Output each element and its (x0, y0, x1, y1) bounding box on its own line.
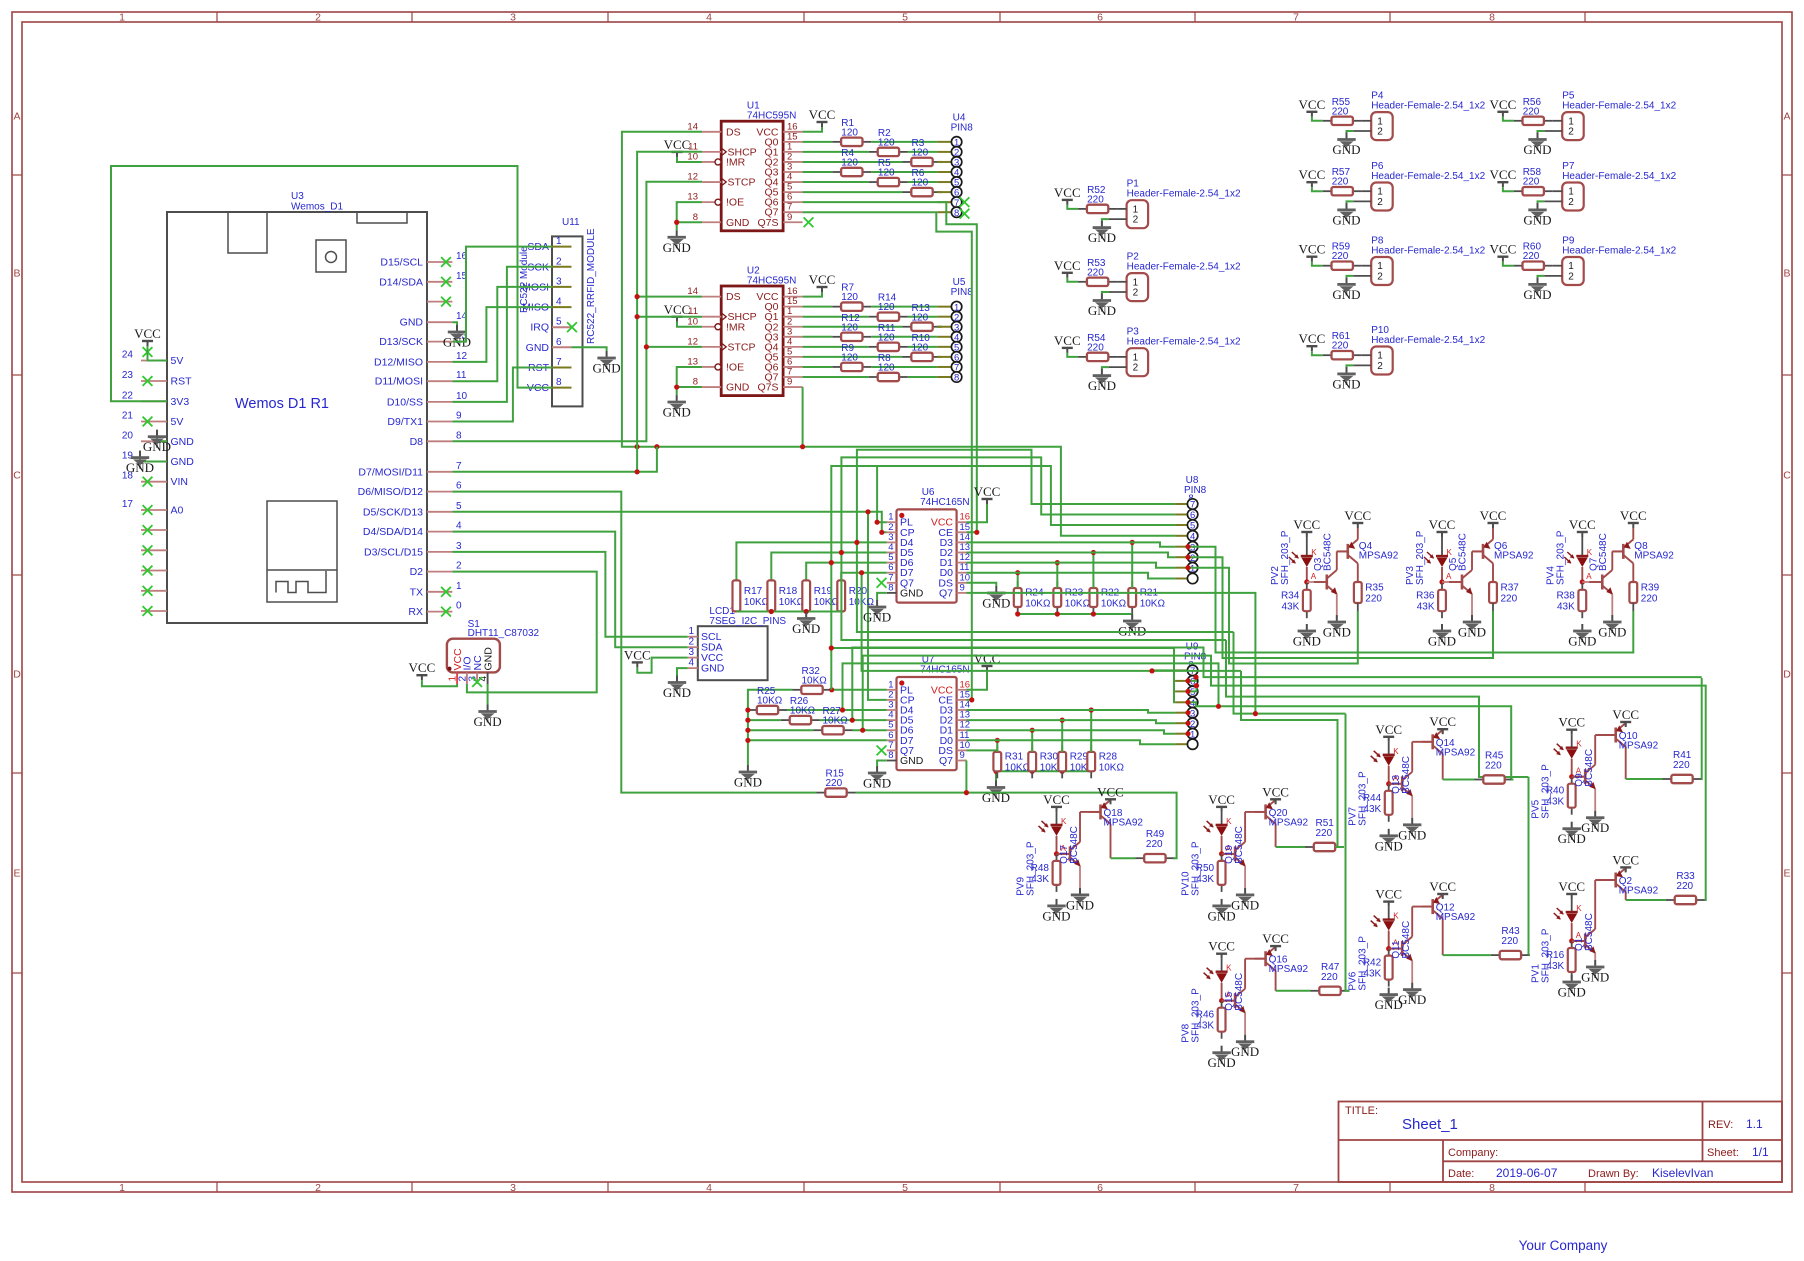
svg-text:220: 220 (1501, 936, 1518, 947)
P5 pin 1 (1553, 116, 1575, 127)
power VCC at P8 (1299, 242, 1326, 262)
wire resistor to connector (937, 161, 941, 163)
resistor R59 (1323, 242, 1362, 270)
power VCC at PV4 (1569, 517, 1596, 537)
svg-text:6: 6 (1097, 12, 1103, 24)
wire net SDA D4 to LCD1 (452, 532, 687, 648)
ground below R42 (1375, 988, 1403, 1013)
svg-text:VCC: VCC (1429, 879, 1456, 894)
wire resistor to connector (908, 151, 937, 153)
svg-text:8: 8 (888, 582, 893, 593)
wire U6 data to U8 (967, 553, 1176, 558)
junction R32/PL riser (829, 687, 834, 692)
svg-text:GND: GND (701, 663, 725, 675)
resistor R61 (1323, 331, 1362, 359)
junction R28 top (1089, 707, 1094, 712)
svg-text:220: 220 (1673, 760, 1690, 771)
ground at P6 (1332, 203, 1360, 228)
frame tick top/bottom x=217 (216, 12, 218, 22)
svg-text:Header-Female-2.54_1x2: Header-Female-2.54_1x2 (1127, 337, 1241, 348)
svg-text:220: 220 (1146, 839, 1163, 850)
junction SHCP U2 (635, 314, 640, 319)
svg-text:VCC: VCC (1299, 97, 1326, 112)
ground at Q3 emitter (1323, 615, 1351, 640)
resistor R2 (869, 128, 908, 156)
U2 pin 9 Q7S (757, 377, 802, 394)
svg-text:Header-Female-2.54_1x2: Header-Female-2.54_1x2 (1562, 101, 1676, 112)
svg-text:GND: GND (1398, 827, 1426, 842)
svg-text:8: 8 (888, 750, 893, 761)
svg-text:BC548C: BC548C (1234, 826, 1245, 864)
svg-text:Your Company: Your Company (1519, 1238, 1608, 1253)
header P4 body (1371, 112, 1393, 140)
svg-text:VCC: VCC (134, 326, 161, 341)
wire pull resistor ground rail right (1018, 613, 1132, 615)
wire chip output to resistor (803, 336, 833, 338)
wire U8 pin2 to PV3 output (1188, 557, 1492, 658)
svg-text:Header-Female-2.54_1x2: Header-Female-2.54_1x2 (1562, 246, 1676, 257)
svg-text:120: 120 (912, 342, 929, 353)
svg-text:K: K (1226, 817, 1232, 826)
svg-text:DS: DS (726, 126, 741, 138)
junction U9 pin6 (1185, 678, 1190, 683)
svg-text:Header-Female-2.54_1x2: Header-Female-2.54_1x2 (1127, 262, 1241, 273)
svg-text:VCC: VCC (1043, 792, 1070, 807)
U11 pin 3 MOSI (522, 276, 571, 293)
wire bus to U9 pin4 (1174, 648, 1175, 702)
wire jog to U9 pin6 (1188, 677, 1196, 681)
resistor R3 (903, 138, 942, 166)
junction net at U6 D6 (829, 560, 834, 565)
svg-text:GND: GND (474, 714, 502, 729)
resistor R58 (1514, 167, 1553, 195)
U2 pin 6 Q6 (764, 356, 802, 373)
junction R21 top (1130, 540, 1135, 545)
resistor R32 (793, 666, 832, 694)
junction rail (1091, 611, 1096, 616)
ground at P1 (1088, 221, 1116, 246)
svg-text:0: 0 (456, 601, 462, 612)
svg-text:43K: 43K (1363, 969, 1381, 980)
wire collector to resistor (1443, 954, 1491, 956)
wire collector to resistor (1276, 846, 1305, 848)
svg-text:12: 12 (687, 336, 698, 347)
ground at P9 (1523, 277, 1551, 302)
LCD1 pin 1 SCL (688, 626, 722, 643)
photodiode PV3 SFH_203_P (1405, 530, 1453, 585)
svg-text:120: 120 (878, 137, 895, 148)
svg-text:R20: R20 (849, 586, 868, 597)
svg-text:VCC: VCC (1558, 879, 1585, 894)
resistor R28 (1087, 745, 1124, 778)
P4 pin 2 (1353, 127, 1383, 138)
svg-text:220: 220 (1523, 177, 1540, 188)
ground at Q15 emitter (1231, 1035, 1259, 1060)
svg-text:RC522 Module: RC522 Module (519, 246, 530, 313)
ground at P4 (1332, 133, 1360, 158)
svg-text:VCC: VCC (1490, 167, 1517, 182)
LCD1 pin 4 GND (688, 658, 725, 675)
transistor Q7 BC548C (1582, 533, 1613, 615)
ground at P3 (1088, 369, 1116, 394)
power VCC at PV2 (1293, 517, 1320, 537)
ground at Q1 emitter (1581, 960, 1609, 985)
svg-text:VCC: VCC (1375, 722, 1402, 737)
svg-text:R16: R16 (1546, 950, 1565, 961)
wire PV8 net step down (1234, 632, 1346, 714)
power VCC at PV1 (1558, 879, 1585, 899)
junction DS/rail (993, 769, 998, 774)
U11 pin 8 VCC (527, 377, 572, 394)
U6 pin 1 PL (887, 512, 913, 529)
svg-text:MPSA92: MPSA92 (1359, 551, 1399, 562)
wire VCC to S1 pin1 (422, 680, 457, 686)
svg-text:GND: GND (1332, 212, 1360, 227)
wire pull resistor to input row (1131, 542, 1133, 588)
svg-text:A0: A0 (171, 505, 184, 517)
resistor R7 (832, 283, 871, 311)
svg-text:24: 24 (122, 350, 134, 361)
svg-text:220: 220 (1332, 177, 1349, 188)
svg-text:5: 5 (902, 12, 908, 24)
svg-text:K: K (1311, 548, 1317, 557)
svg-text:GND: GND (1523, 287, 1551, 302)
resistor R44 (1363, 784, 1393, 822)
svg-text:10KΩ: 10KΩ (814, 597, 840, 608)
svg-text:VCC: VCC (1262, 784, 1289, 799)
wire collector to resistor (1443, 779, 1475, 781)
P3 pin 2 (1109, 363, 1139, 374)
svg-text:4: 4 (706, 12, 712, 24)
svg-text:120: 120 (878, 332, 895, 343)
svg-text:D10/SS: D10/SS (387, 396, 423, 408)
IC U1 74HC595N body (721, 121, 783, 231)
wire U1 Q7 to U7 CE (803, 212, 972, 700)
frame tick left/right y=575 (12, 574, 22, 576)
U4 pin 2 (937, 147, 962, 159)
svg-text:Header-Female-2.54_1x2: Header-Female-2.54_1x2 (1371, 171, 1485, 182)
U4 pin 8 (937, 207, 962, 219)
svg-text:VCC: VCC (1097, 784, 1124, 799)
LCD1 pin 2 SDA (688, 637, 723, 654)
svg-text:U11: U11 (562, 217, 580, 228)
U11 pin 5 IRQ (530, 317, 571, 334)
wire PV5 output to U7 D5 (852, 648, 1701, 721)
svg-text:VCC: VCC (1620, 508, 1647, 523)
U2 pin 8 GND (693, 377, 750, 394)
junction U9 pin5 (1185, 689, 1190, 694)
svg-text:120: 120 (841, 158, 858, 169)
svg-text:BC548C: BC548C (1322, 533, 1333, 571)
wire STCP branch to U2 (646, 346, 702, 348)
svg-text:D3/SCL/D15: D3/SCL/D15 (364, 546, 423, 558)
svg-text:2019-06-07: 2019-06-07 (1496, 1166, 1558, 1180)
U3 pin 14 GND (400, 311, 468, 329)
svg-text:Q7: Q7 (939, 587, 953, 599)
junction rail R18 (769, 609, 774, 614)
U2 pin 5 Q5 (764, 346, 802, 363)
resistor R53 (1078, 258, 1117, 286)
wire chip output to resistor (803, 306, 833, 308)
svg-text:43K: 43K (1546, 961, 1564, 972)
resistor R16 (1546, 941, 1576, 979)
wire pull to ground rail (748, 719, 781, 721)
svg-text:Q7S: Q7S (757, 217, 778, 229)
wire U6 input to pull resistor (841, 573, 887, 581)
resistor R4 (832, 148, 871, 176)
wire U6 input to pull resistor (736, 542, 886, 580)
ground at U3 pin20 (143, 430, 171, 455)
ground at U6 pin8 (863, 600, 891, 625)
wire PV8 net to U8 pin7 (857, 450, 1234, 632)
no-connect X on VCC stub (143, 347, 153, 357)
junction D7/SHCP (635, 469, 640, 474)
wire riser to U7 PL (830, 648, 832, 690)
wire PV6 net to U8 pin6 (841, 457, 1226, 640)
svg-text:BC548C: BC548C (1234, 973, 1245, 1011)
svg-text:GND: GND (1231, 897, 1259, 912)
U5 pin 7 (937, 362, 962, 374)
svg-text:Company:: Company: (1448, 1147, 1498, 1159)
U2 pin 13 !OE (687, 356, 744, 373)
svg-text:2: 2 (1133, 215, 1139, 226)
resistor R11 (869, 323, 908, 351)
header P7 body (1562, 183, 1584, 211)
svg-text:GND: GND (863, 776, 891, 791)
wire U3 pin19 to ground (140, 451, 167, 462)
U8 pin 4 (1175, 531, 1198, 543)
svg-text:74HC595N: 74HC595N (747, 276, 796, 287)
wire VCC to resistor (1312, 187, 1323, 191)
collector lead (1492, 603, 1494, 611)
svg-text:10KΩ: 10KΩ (1099, 763, 1125, 774)
svg-text:VCC: VCC (974, 484, 1001, 499)
svg-text:6: 6 (556, 337, 562, 348)
wire VCC to resistor (1503, 117, 1514, 121)
resistor R56 (1514, 97, 1553, 125)
header P8 body (1371, 257, 1393, 285)
power VCC at P6 (1299, 167, 1326, 187)
wire net RST D9 to U11 (452, 368, 552, 422)
svg-text:220: 220 (1332, 106, 1349, 117)
svg-text:9: 9 (456, 411, 462, 422)
U3 pin 5 D5/SCK/D13 (363, 501, 462, 519)
resistor R49 (1135, 829, 1174, 862)
power VCC at Q14 (1429, 714, 1456, 734)
U6 pin 14 D3 (940, 532, 971, 549)
P3 pin 1 (1117, 352, 1139, 363)
U3 pin 24 5V (122, 350, 183, 368)
junction PV6 anode (1386, 946, 1391, 951)
svg-text:VCC: VCC (1558, 715, 1585, 730)
wire R32 to ground rail (748, 690, 793, 765)
ground at P5 (1523, 133, 1551, 158)
svg-text:Wemos_D1: Wemos_D1 (291, 202, 343, 213)
wire D8 to STCP chain (452, 182, 702, 442)
svg-text:D9/TX1: D9/TX1 (387, 416, 423, 428)
U6 pin 7 Q7 (887, 572, 914, 589)
U7 pin 14 D3 (940, 700, 971, 717)
wire !OE to GND net (677, 202, 702, 222)
svg-text:VCC: VCC (1208, 792, 1235, 807)
wire PV9 cluster output (1173, 857, 1174, 859)
resistor R26 (781, 696, 820, 724)
wire pull resistor ground rail (736, 611, 841, 613)
svg-text:21: 21 (122, 411, 134, 422)
connector U11 RC522 body (552, 236, 583, 406)
resistor R19 (802, 580, 839, 611)
svg-text:1.1: 1.1 (1746, 1117, 1763, 1131)
U3 pin 19 GND (122, 451, 194, 469)
U7 pin 3 D4 (887, 700, 914, 717)
U9 pin 7 (1175, 665, 1198, 677)
resistor R36 (1416, 583, 1446, 618)
wire pin2 to ground (1538, 131, 1545, 133)
wire VCC to !MR (677, 157, 702, 162)
power VCC at Q20 (1262, 784, 1289, 804)
svg-text:2: 2 (1133, 288, 1139, 299)
svg-text:1: 1 (119, 1182, 125, 1194)
junction R22 top (1091, 550, 1096, 555)
wire VCC to resistor (1067, 278, 1078, 282)
svg-text:GND: GND (863, 610, 891, 625)
wire PV6 net step down (1226, 640, 1529, 777)
power VCC at P3 (1054, 333, 1081, 353)
svg-text:7: 7 (456, 461, 462, 472)
svg-text:VCC: VCC (1054, 258, 1081, 273)
resistor R17 (733, 580, 770, 611)
resistor R21 (1128, 581, 1165, 614)
wire PV10 cluster output (1335, 846, 1344, 848)
U3 pin 7 D7/MOSI/D11 (358, 461, 462, 479)
wire pin2 to ground (1102, 219, 1109, 221)
junction U8 pin3 (1185, 544, 1190, 549)
junction U2 Q7S on cascade line (800, 444, 805, 449)
svg-text:220: 220 (1485, 761, 1502, 772)
wire U3 pin20 to ground (157, 430, 167, 442)
resistor R10 (903, 333, 942, 361)
svg-text:2: 2 (1568, 127, 1574, 138)
wire PV10 output riser (1241, 671, 1338, 847)
power VCC at U6 (974, 484, 1001, 504)
resistor R31 (993, 745, 1030, 778)
svg-text:DS: DS (726, 291, 741, 303)
ground at U11 pin6 (593, 351, 621, 376)
wire net SCL D3 to LCD1 (452, 552, 687, 637)
junction R24 top (1015, 570, 1020, 575)
photodiode PV2 SFH_203_P (1270, 530, 1318, 585)
svg-text:2: 2 (315, 1182, 321, 1194)
wire resistor to connector (871, 306, 937, 308)
U7 pin 8 GND (887, 750, 924, 767)
svg-text:8: 8 (556, 377, 562, 388)
U7 pin 2 CP (887, 689, 915, 706)
svg-text:9: 9 (960, 582, 965, 593)
svg-text:GND: GND (1293, 634, 1321, 649)
svg-text:D7/MOSI/D11: D7/MOSI/D11 (358, 466, 423, 478)
svg-text:120: 120 (912, 312, 929, 323)
ground at Q13 emitter (1398, 818, 1426, 843)
svg-text:GND: GND (171, 456, 195, 468)
junction U9 pin3 (1185, 710, 1190, 715)
svg-text:R30: R30 (1040, 752, 1059, 763)
junction PV8 anode (1219, 998, 1224, 1003)
svg-text:VCC: VCC (1490, 97, 1517, 112)
power VCC at P1 (1054, 185, 1081, 205)
power VCC at PV8 (1208, 939, 1235, 959)
wire resistor to connector (871, 366, 937, 368)
resistor R24 (1014, 581, 1051, 614)
ground at U7 pin8 (863, 766, 891, 791)
U6 pin 13 D2 (940, 542, 971, 559)
ground below R34 (1293, 624, 1321, 649)
svg-text:220: 220 (1365, 594, 1382, 605)
U6 pin 11 D0 (940, 562, 970, 579)
header P6 body (1371, 183, 1393, 211)
U6 pin 3 D4 (887, 532, 914, 549)
svg-text:8: 8 (954, 373, 959, 384)
frame tick left/right y=973 (12, 972, 22, 974)
power VCC at Q2 (1612, 852, 1639, 872)
svg-text:IRQ: IRQ (530, 322, 549, 334)
svg-text:STCP: STCP (728, 177, 756, 189)
S1 pin 1 VCC (448, 648, 464, 684)
svg-text:5V: 5V (171, 416, 184, 428)
power VCC at S1 (409, 660, 436, 680)
resistor R34 (1281, 583, 1311, 618)
junction PV2 anode (1304, 579, 1309, 584)
svg-text:GND: GND (126, 460, 154, 475)
svg-text:VCC: VCC (409, 660, 436, 675)
svg-text:GND: GND (663, 405, 691, 420)
svg-text:GND: GND (792, 621, 820, 636)
U3 pin 3 D3/SCL/D15 (364, 541, 462, 559)
svg-text:220: 220 (1332, 341, 1349, 352)
U1 pin 16 VCC (756, 121, 802, 138)
frame tick top/bottom x=1195 (1194, 12, 1196, 22)
svg-text:VCC: VCC (1490, 242, 1517, 257)
wire resistor to connector (908, 346, 937, 348)
frame tick left/right y=375 (12, 374, 22, 376)
P2 pin 2 (1109, 288, 1139, 299)
resistor R60 (1514, 242, 1553, 270)
junction rail R19 (804, 609, 809, 614)
U7 pin 16 VCC (931, 679, 970, 696)
svg-text:GND: GND (1398, 992, 1426, 1007)
transistor Q20 MPSA92 (1245, 800, 1308, 847)
wire resistor to connector (908, 376, 937, 378)
junction ground rail (745, 707, 750, 712)
svg-text:MPSA92: MPSA92 (1104, 817, 1144, 828)
U3 pin 20 GND (122, 430, 194, 448)
frame tick top/bottom x=1390 (1389, 12, 1391, 22)
svg-text:MPSA92: MPSA92 (1436, 747, 1476, 758)
U6 pin 10 DS (938, 572, 970, 589)
svg-text:Header-Female-2.54_1x2: Header-Female-2.54_1x2 (1371, 335, 1485, 346)
U5 pin 8 (937, 372, 962, 384)
svg-text:R48: R48 (1031, 863, 1050, 874)
svg-text:Q7: Q7 (939, 755, 953, 767)
U2 pin 2 Q2 (764, 316, 802, 333)
wire PV5 cluster output (1701, 678, 1703, 779)
svg-text:GND: GND (1568, 634, 1596, 649)
U3 pin 15 D14/SDA (379, 271, 467, 289)
ground at LCD1 pin4 (663, 676, 691, 701)
power VCC at P7 (1490, 167, 1517, 187)
frame tick top/bottom x=1585 (1584, 12, 1586, 22)
svg-text:VCC: VCC (1299, 242, 1326, 257)
junction D7 on cascade line (654, 444, 659, 449)
